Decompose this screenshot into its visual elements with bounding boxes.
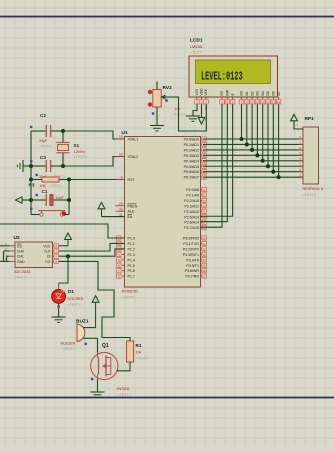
svg-text:VEE: VEE	[204, 88, 208, 95]
capacitor C3	[30, 155, 65, 179]
junction D2 bus	[250, 148, 254, 152]
svg-text:19: 19	[119, 135, 123, 139]
svg-text:P1.0: P1.0	[128, 237, 135, 241]
svg-text:ADC0832: ADC0832	[14, 270, 30, 274]
wire LCD VSS to ground	[193, 104, 197, 116]
svg-text:22: 22	[203, 193, 207, 197]
svg-text:CH0: CH0	[17, 250, 24, 254]
svg-text:BUZZER: BUZZER	[61, 342, 76, 346]
svg-text:P2.6/A14: P2.6/A14	[184, 221, 199, 225]
wire LCD RW to P2.6	[201, 104, 228, 221]
svg-text:P0.0/AD0: P0.0/AD0	[184, 138, 199, 142]
svg-text:AT89C51: AT89C51	[122, 289, 139, 294]
svg-text:10uF: 10uF	[56, 196, 65, 200]
svg-text:CLK: CLK	[44, 250, 51, 254]
svg-text:P2.7/A15: P2.7/A15	[184, 226, 199, 230]
svg-text:P2.3/A11: P2.3/A11	[184, 204, 199, 208]
svg-text:U2: U2	[14, 235, 20, 241]
junction DI-LED	[66, 254, 70, 258]
wire XTAL2 net	[63, 157, 125, 167]
svg-text:P3.6/WR: P3.6/WR	[185, 269, 200, 273]
svg-text:D1: D1	[245, 91, 249, 95]
potentiometer RV2	[148, 82, 186, 117]
svg-text:P1.1: P1.1	[128, 242, 135, 246]
svg-text:P2.2/A10: P2.2/A10	[184, 199, 199, 203]
svg-text:P1.4: P1.4	[128, 258, 135, 262]
svg-text:D4: D4	[261, 91, 265, 95]
svg-text:RP1: RP1	[305, 116, 315, 122]
LCD pins 1-14	[195, 88, 281, 104]
ground (LCD VSS)	[186, 116, 200, 121]
svg-text:C2: C2	[40, 113, 46, 118]
wire EA to power	[102, 216, 125, 218]
svg-text:16: 16	[203, 269, 207, 273]
U1 P1.0-P1.7 pins	[117, 236, 135, 279]
svg-text:<TEXT>: <TEXT>	[136, 357, 149, 361]
wire U2 DI to P1.2	[59, 249, 125, 256]
svg-text:LM016L: LM016L	[190, 45, 203, 49]
svg-text:P3.3/INT1: P3.3/INT1	[183, 253, 199, 257]
wire LED cathode to ground	[58, 303, 60, 317]
power terminal down (LCD VDD)	[198, 104, 205, 124]
svg-text:10k: 10k	[175, 107, 181, 111]
svg-text:RW: RW	[226, 89, 230, 95]
svg-text:VSS: VSS	[195, 88, 199, 95]
wire LCD E to P2.5	[201, 104, 233, 216]
junction C1-right	[67, 198, 71, 202]
resistor R3	[29, 174, 70, 188]
svg-text:14: 14	[277, 100, 281, 104]
svg-text:D2: D2	[250, 91, 254, 95]
power terminal (buzzer)	[92, 296, 99, 328]
svg-text:RST: RST	[128, 178, 136, 182]
power terminal (U2 VCC)	[65, 233, 72, 246]
ADC U2 ADC0832	[5, 235, 58, 280]
svg-text:10K: 10K	[40, 184, 47, 188]
svg-text:10: 10	[256, 100, 260, 104]
svg-text:2N7002: 2N7002	[117, 387, 130, 391]
wire LCD D0-D7 verticals	[242, 104, 279, 177]
svg-text:LED-RED: LED-RED	[68, 297, 84, 301]
svg-text:VDD: VDD	[200, 88, 204, 96]
svg-text:P0.7/AD7: P0.7/AD7	[184, 176, 199, 180]
svg-text:P0.5/AD5: P0.5/AD5	[184, 165, 199, 169]
U1 left pins: XTAL1, XTAL2, RST, PSEN, ALE, EA	[116, 135, 139, 219]
power terminal (RP1 pin1)	[291, 114, 298, 121]
junction C2-crystal	[61, 129, 65, 133]
wire RST net	[69, 180, 125, 215]
ground (Q1)	[91, 392, 105, 397]
svg-text:<TEXT>: <TEXT>	[122, 296, 135, 300]
ground (LED)	[52, 317, 66, 322]
svg-text:CS: CS	[17, 244, 22, 248]
svg-text:C1: C1	[42, 189, 48, 194]
svg-text:P1.5: P1.5	[128, 264, 135, 268]
junction D4 bus	[261, 159, 265, 163]
svg-text:P0.1/AD1: P0.1/AD1	[184, 143, 199, 147]
wire RV2 wiper to LCD VEE	[166, 97, 206, 131]
svg-text:RS: RS	[220, 90, 224, 95]
svg-text:17: 17	[203, 275, 207, 279]
svg-text:C3: C3	[40, 155, 46, 160]
svg-text:PSEN: PSEN	[128, 204, 138, 208]
svg-text:15: 15	[203, 264, 207, 268]
svg-text:<TEXT>: <TEXT>	[303, 193, 316, 197]
svg-text:13: 13	[203, 253, 207, 257]
svg-text:21: 21	[203, 188, 207, 192]
svg-text:12: 12	[266, 100, 270, 104]
svg-text:EA: EA	[128, 215, 133, 219]
transistor Q1 2N7002	[91, 343, 131, 397]
wire RP1 common	[294, 121, 303, 129]
svg-text:23: 23	[203, 199, 207, 203]
svg-text:29: 29	[119, 202, 123, 206]
svg-text:CH1: CH1	[17, 255, 24, 259]
resistor pack RP1 RESPACK-8	[299, 116, 324, 197]
wire Q1 source to ground	[97, 379, 99, 392]
microcontroller U1 AT89C51	[122, 130, 201, 300]
svg-text:D3: D3	[256, 91, 260, 95]
svg-text:11: 11	[261, 100, 264, 104]
svg-text:P1.6: P1.6	[128, 269, 135, 273]
svg-text:24: 24	[203, 204, 207, 208]
svg-text:D7: D7	[277, 91, 281, 95]
svg-text:D0: D0	[240, 91, 244, 95]
wire left ground rail	[30, 131, 32, 215]
svg-text:D1: D1	[68, 289, 74, 294]
svg-text:DO: DO	[45, 260, 50, 264]
svg-text:<TEXT>: <TEXT>	[39, 145, 52, 149]
svg-text:<TEXT>: <TEXT>	[68, 303, 81, 307]
svg-text:P2.0/A8: P2.0/A8	[186, 188, 199, 192]
crystal X1	[57, 131, 87, 166]
svg-text:P0.6/AD6: P0.6/AD6	[184, 170, 199, 174]
svg-text:P3.7/RD: P3.7/RD	[185, 275, 199, 279]
wire buzzer to Q1 drain	[97, 338, 99, 353]
svg-text:X1: X1	[74, 143, 80, 148]
svg-text:10: 10	[203, 236, 207, 240]
svg-text:13: 13	[272, 100, 276, 104]
junction rail-ground	[29, 164, 33, 168]
U1 P2.0-P2.7 pins	[184, 187, 206, 230]
capacitor C1 (electrolytic)	[31, 189, 69, 206]
junction R3-RST	[67, 178, 71, 182]
svg-text:P1.7: P1.7	[128, 275, 135, 279]
svg-text:P3.4/T0: P3.4/T0	[186, 258, 199, 262]
junction D1 bus	[245, 142, 249, 146]
power terminal (left arrow)	[16, 197, 32, 203]
svg-text:<TEXT>: <TEXT>	[62, 347, 75, 351]
push button (reset)	[30, 208, 69, 217]
svg-text:ALE: ALE	[128, 210, 135, 214]
junction D3 bus	[255, 153, 259, 157]
svg-text:P2.4/A12: P2.4/A12	[184, 210, 199, 214]
junction rail-R3	[29, 178, 33, 182]
svg-text:14: 14	[203, 258, 207, 262]
svg-text:P0.4/AD4: P0.4/AD4	[184, 159, 199, 163]
wire U2 CH0 input	[4, 251, 10, 261]
svg-text:<TEXT>: <TEXT>	[173, 113, 186, 117]
wire R1 to Q1 gate	[117, 362, 130, 371]
svg-text:R1: R1	[136, 343, 142, 348]
svg-text:<TEXT>: <TEXT>	[74, 155, 87, 159]
LCD LCD1 LM016L	[189, 38, 278, 98]
svg-text:P2.1/A9: P2.1/A9	[186, 193, 199, 197]
svg-text:11: 11	[203, 242, 206, 246]
ground (RV2)	[150, 126, 164, 131]
LED D1 LED-RED	[52, 283, 84, 307]
svg-text:33pF: 33pF	[39, 139, 48, 143]
svg-text:P1.3: P1.3	[128, 253, 135, 257]
svg-text:10k: 10k	[136, 351, 142, 355]
svg-text:RESPACK-8: RESPACK-8	[303, 187, 324, 191]
svg-text:12: 12	[203, 247, 207, 251]
junction D5 bus	[266, 164, 270, 168]
svg-text:P3.0/RXD: P3.0/RXD	[183, 237, 199, 241]
svg-text:GND: GND	[17, 260, 25, 264]
svg-text:R3: R3	[29, 183, 35, 188]
svg-text:25: 25	[203, 210, 207, 214]
capacitor C2	[30, 113, 63, 149]
junction D6 bus	[271, 170, 275, 174]
wire U2 GND input	[0, 260, 9, 262]
ground (sideways, crystal caps)	[17, 160, 31, 172]
wire XTAL1 net	[63, 131, 125, 139]
svg-text:Q1: Q1	[102, 343, 109, 349]
U1 P3.0-P3.7 pins	[183, 236, 207, 279]
svg-text:XTAL1: XTAL1	[128, 138, 139, 142]
svg-text:<TEXT>: <TEXT>	[190, 51, 203, 55]
svg-text:<TEXT>: <TEXT>	[14, 276, 27, 280]
svg-text:P3.2/INT0: P3.2/INT0	[183, 247, 199, 251]
svg-text:VCC: VCC	[43, 244, 51, 248]
svg-text:DI: DI	[47, 255, 50, 259]
wire U2 CS input	[0, 245, 9, 247]
svg-text:D6: D6	[272, 91, 276, 95]
svg-text:<TEXT>: <TEXT>	[118, 393, 131, 397]
svg-text:P2.5/A13: P2.5/A13	[184, 215, 199, 219]
wire junction to LED D1	[59, 256, 68, 283]
junction C3-crystal	[61, 164, 65, 168]
svg-text:XTAL2: XTAL2	[128, 155, 139, 159]
junction D0 bus	[240, 137, 244, 141]
wire P0 data bus rows to RP1	[203, 139, 303, 177]
wire LCD VEE down	[205, 104, 207, 110]
svg-text:P1.2: P1.2	[128, 247, 135, 251]
power terminal (EA)	[98, 202, 105, 216]
svg-text:<TEXT>: <TEXT>	[49, 184, 62, 188]
junction D7 bus	[277, 175, 281, 179]
svg-text:BUZ1: BUZ1	[76, 319, 89, 325]
wire U2 CLK to P1.1	[59, 243, 125, 251]
svg-text:30: 30	[119, 207, 123, 211]
svg-text:LEVEL:0123: LEVEL:0123	[201, 70, 243, 84]
buzzer BUZ1	[61, 319, 98, 352]
resistor R1	[127, 341, 149, 362]
svg-text:18: 18	[119, 153, 123, 157]
wire U2 VCC	[59, 245, 68, 247]
svg-text:LCD1: LCD1	[190, 38, 203, 44]
wire RV2 bottom to ground	[156, 107, 158, 125]
svg-text:P3.5/T1: P3.5/T1	[186, 264, 199, 268]
svg-text:12MHz: 12MHz	[74, 150, 86, 154]
U1 P0.0-P0.7 pins	[184, 137, 207, 180]
wire U2 CH1 input	[7, 256, 10, 261]
svg-text:RV2: RV2	[163, 85, 173, 91]
svg-text:P0.2/AD2: P0.2/AD2	[184, 148, 199, 152]
junction rail-arrow	[29, 198, 33, 202]
svg-text:P3.1/TXD: P3.1/TXD	[183, 242, 199, 246]
svg-text:9: 9	[121, 176, 123, 180]
wire U2 DO to R1 (staircase)	[59, 261, 130, 341]
wire sensor input to P1.0	[0, 224, 125, 238]
svg-text:P0.3/AD3: P0.3/AD3	[184, 154, 199, 158]
wire LCD RS to P2.7	[201, 104, 223, 227]
svg-text:D5: D5	[266, 91, 270, 95]
